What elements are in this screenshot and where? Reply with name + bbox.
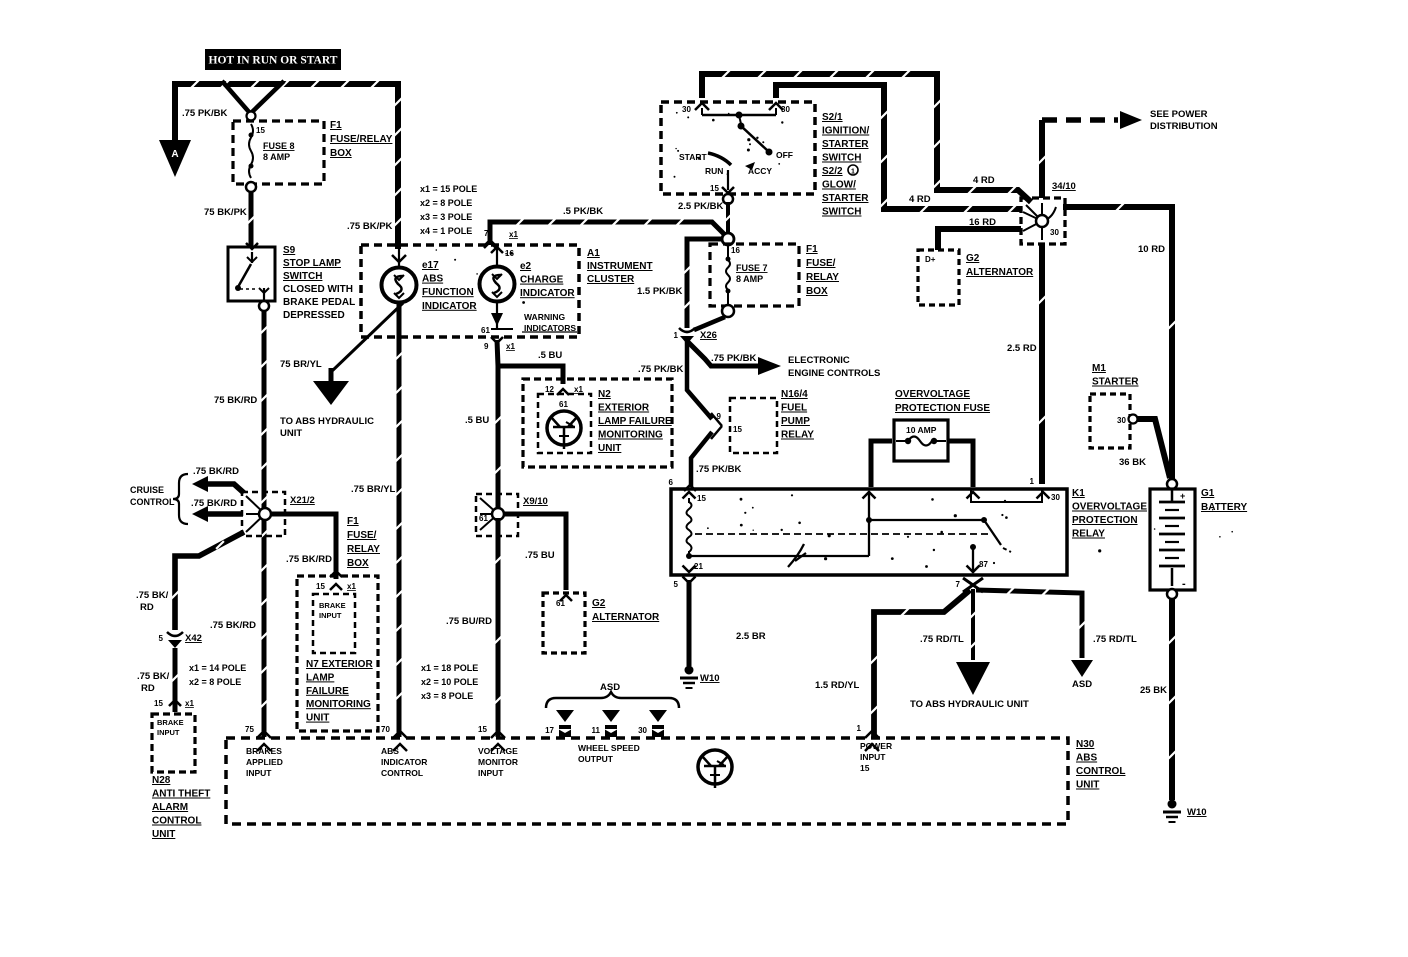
svg-text:UNIT: UNIT: [598, 443, 621, 454]
svg-text:STARTER: STARTER: [822, 193, 869, 204]
svg-text:RELAY: RELAY: [781, 430, 814, 441]
svg-text:e2: e2: [520, 261, 532, 272]
svg-text:CHARGE: CHARGE: [520, 275, 564, 286]
svg-text:N30: N30: [1076, 739, 1095, 750]
svg-text:1.5 PK/BK: 1.5 PK/BK: [637, 286, 683, 297]
svg-text:LAMP FAILURE: LAMP FAILURE: [598, 416, 672, 427]
svg-text:x1 = 18 POLE: x1 = 18 POLE: [421, 663, 478, 673]
svg-text:12: 12: [545, 385, 554, 394]
svg-text:VOLTAGE: VOLTAGE: [478, 746, 518, 756]
svg-text:15: 15: [154, 699, 163, 708]
svg-text:15: 15: [710, 184, 719, 193]
svg-text:APPLIED: APPLIED: [246, 757, 283, 767]
svg-text:8 AMP: 8 AMP: [736, 274, 763, 284]
svg-text:N16/4: N16/4: [781, 389, 808, 400]
svg-text:SEE POWER: SEE POWER: [1150, 109, 1208, 120]
svg-text:UNIT: UNIT: [280, 428, 302, 439]
svg-text:BRAKE: BRAKE: [319, 601, 346, 610]
svg-text:.5 BU: .5 BU: [538, 350, 562, 361]
svg-text:30: 30: [638, 726, 647, 735]
svg-text:.75 PK/BK: .75 PK/BK: [182, 108, 228, 119]
svg-text:87: 87: [979, 560, 988, 569]
svg-text:HOT IN RUN OR START: HOT IN RUN OR START: [209, 55, 338, 67]
svg-text:5: 5: [159, 634, 164, 643]
svg-text:.75 RD/TL: .75 RD/TL: [920, 634, 964, 645]
svg-text:2.5 BR: 2.5 BR: [736, 631, 766, 642]
svg-text:4 RD: 4 RD: [909, 194, 931, 205]
svg-text:15: 15: [697, 494, 706, 503]
svg-text:RELAY: RELAY: [806, 272, 839, 283]
svg-text:INPUT: INPUT: [157, 728, 180, 737]
svg-text:ABS: ABS: [1076, 753, 1097, 764]
svg-text:25 BK: 25 BK: [1140, 685, 1167, 696]
svg-text:W10: W10: [1187, 807, 1207, 818]
svg-text:10 AMP: 10 AMP: [906, 425, 937, 435]
svg-text:.75 BK/: .75 BK/: [137, 671, 170, 682]
svg-text:7: 7: [956, 580, 961, 589]
svg-text:K1: K1: [1072, 488, 1085, 499]
svg-text:CONTROL: CONTROL: [130, 497, 175, 507]
svg-text:BOX: BOX: [330, 148, 352, 159]
svg-text:9: 9: [484, 342, 489, 351]
svg-text:1: 1: [1030, 477, 1035, 486]
svg-text:75 BR/YL: 75 BR/YL: [280, 359, 322, 370]
svg-text:.75 BK/RD: .75 BK/RD: [286, 554, 332, 565]
svg-text:70: 70: [381, 725, 390, 734]
svg-text:15: 15: [733, 425, 742, 434]
svg-text:CONTROL: CONTROL: [152, 816, 201, 827]
svg-text:INPUT: INPUT: [860, 752, 886, 762]
svg-text:.75 BU/RD: .75 BU/RD: [446, 616, 492, 627]
svg-text:ELECTRONIC: ELECTRONIC: [788, 355, 850, 366]
svg-text:ENGINE CONTROLS: ENGINE CONTROLS: [788, 368, 880, 379]
svg-text:FUSE/: FUSE/: [806, 258, 836, 269]
svg-text:ALTERNATOR: ALTERNATOR: [966, 267, 1034, 278]
svg-text:ALARM: ALARM: [152, 802, 188, 813]
svg-text:M1: M1: [1092, 363, 1106, 374]
svg-text:X21/2: X21/2: [290, 495, 315, 506]
svg-text:ABS: ABS: [381, 746, 399, 756]
svg-text:G2: G2: [592, 598, 606, 609]
svg-text:x1 = 15 POLE: x1 = 15 POLE: [420, 184, 477, 194]
svg-text:CONTROL: CONTROL: [1076, 766, 1125, 777]
svg-text:BRAKE PEDAL: BRAKE PEDAL: [283, 297, 355, 308]
svg-text:D+: D+: [925, 255, 936, 264]
svg-text:EXTERIOR: EXTERIOR: [598, 403, 650, 414]
svg-text:ABS: ABS: [422, 274, 443, 285]
svg-text:30: 30: [1050, 228, 1059, 237]
svg-text:TO ABS HYDRAULIC: TO ABS HYDRAULIC: [280, 416, 374, 427]
svg-text:x1: x1: [185, 699, 194, 708]
svg-text:STARTER: STARTER: [1092, 377, 1139, 388]
svg-text:75 BK/PK: 75 BK/PK: [204, 207, 247, 218]
svg-text:.75 BK/: .75 BK/: [136, 590, 169, 601]
svg-text:UNIT: UNIT: [1076, 780, 1099, 791]
svg-text:GLOW/: GLOW/: [822, 180, 856, 191]
svg-text:OUTPUT: OUTPUT: [578, 754, 614, 764]
svg-text:16 RD: 16 RD: [969, 217, 996, 228]
svg-text:e17: e17: [422, 260, 439, 271]
svg-text:ALTERNATOR: ALTERNATOR: [592, 612, 660, 623]
svg-text:.5 PK/BK: .5 PK/BK: [563, 206, 603, 217]
svg-text:RD: RD: [141, 683, 155, 694]
svg-text:RUN: RUN: [705, 166, 723, 176]
svg-text:6: 6: [669, 478, 674, 487]
svg-text:4 RD: 4 RD: [973, 175, 995, 186]
svg-text:LAMP: LAMP: [306, 672, 335, 683]
svg-text:BRAKE: BRAKE: [157, 718, 184, 727]
svg-text:+: +: [1180, 491, 1185, 501]
svg-text:START: START: [679, 152, 708, 162]
svg-text:FUEL: FUEL: [781, 403, 807, 414]
svg-text:G1: G1: [1201, 488, 1215, 499]
svg-text:N2: N2: [598, 389, 611, 400]
svg-text:34/10: 34/10: [1052, 181, 1076, 192]
svg-text:N28: N28: [152, 775, 171, 786]
svg-text:30: 30: [781, 105, 790, 114]
svg-text:X26: X26: [700, 330, 717, 341]
svg-text:G2: G2: [966, 253, 980, 264]
svg-text:.75 PK/BK: .75 PK/BK: [711, 353, 757, 364]
svg-text:CRUISE: CRUISE: [130, 485, 164, 495]
svg-text:RELAY: RELAY: [1072, 529, 1105, 540]
svg-text:SWITCH: SWITCH: [822, 207, 861, 218]
svg-text:MONITORING: MONITORING: [306, 699, 371, 710]
svg-text:.75 RD/TL: .75 RD/TL: [1093, 634, 1137, 645]
svg-text:A1: A1: [587, 248, 600, 259]
svg-text:OVERVOLTAGE: OVERVOLTAGE: [895, 389, 970, 400]
svg-text:x2 = 8 POLE: x2 = 8 POLE: [189, 677, 241, 687]
svg-text:30: 30: [1117, 416, 1126, 425]
svg-text:X9/10: X9/10: [523, 496, 548, 507]
svg-text:PUMP: PUMP: [781, 416, 810, 427]
svg-text:X42: X42: [185, 633, 202, 644]
svg-text:F1: F1: [806, 244, 818, 255]
svg-text:TO ABS HYDRAULIC UNIT: TO ABS HYDRAULIC UNIT: [910, 699, 1029, 710]
svg-text:x1: x1: [509, 230, 518, 239]
svg-text:OVERVOLTAGE: OVERVOLTAGE: [1072, 502, 1147, 513]
svg-text:WARNING: WARNING: [524, 312, 565, 322]
svg-text:1.5 RD/YL: 1.5 RD/YL: [815, 680, 860, 691]
svg-text:FUSE/RELAY: FUSE/RELAY: [330, 134, 393, 145]
svg-text:S2/2: S2/2: [822, 166, 843, 177]
svg-text:FAILURE: FAILURE: [306, 686, 349, 697]
svg-text:16: 16: [731, 246, 740, 255]
svg-text:.75 BR/YL: .75 BR/YL: [351, 484, 396, 495]
svg-text:CLOSED WITH: CLOSED WITH: [283, 284, 353, 295]
svg-text:RELAY: RELAY: [347, 544, 380, 555]
svg-text:FUSE 7: FUSE 7: [736, 263, 768, 273]
svg-text:x2 = 8 POLE: x2 = 8 POLE: [420, 198, 472, 208]
svg-text:BOX: BOX: [347, 558, 369, 569]
svg-text:61: 61: [556, 599, 565, 608]
svg-text:15: 15: [860, 763, 870, 773]
svg-text:S2/1: S2/1: [822, 112, 843, 123]
svg-text:A: A: [171, 149, 178, 160]
svg-text:61: 61: [559, 400, 568, 409]
svg-text:30: 30: [1051, 493, 1060, 502]
svg-text:N7 EXTERIOR: N7 EXTERIOR: [306, 659, 373, 670]
svg-text:x2 = 10 POLE: x2 = 10 POLE: [421, 677, 478, 687]
svg-text:17: 17: [545, 726, 554, 735]
svg-text:36 BK: 36 BK: [1119, 457, 1146, 468]
svg-text:.75 PK/BK: .75 PK/BK: [696, 464, 742, 475]
svg-text:DEPRESSED: DEPRESSED: [283, 310, 345, 321]
svg-text:UNIT: UNIT: [152, 829, 175, 840]
svg-text:BOX: BOX: [806, 286, 828, 297]
svg-text:MONITOR: MONITOR: [478, 757, 518, 767]
svg-text:.5 BU: .5 BU: [465, 415, 489, 426]
svg-text:15: 15: [316, 582, 325, 591]
svg-text:IGNITION/: IGNITION/: [822, 126, 869, 137]
svg-text:CONTROL: CONTROL: [381, 768, 423, 778]
svg-text:SWITCH: SWITCH: [822, 153, 861, 164]
svg-text:BRAKES: BRAKES: [246, 746, 282, 756]
svg-text:8 AMP: 8 AMP: [263, 152, 290, 162]
svg-text:x1: x1: [574, 385, 583, 394]
svg-text:11: 11: [592, 726, 601, 735]
svg-text:.75 BK/PK: .75 BK/PK: [347, 221, 393, 232]
svg-text:ASD: ASD: [1072, 679, 1092, 690]
svg-text:WHEEL SPEED: WHEEL SPEED: [578, 743, 640, 753]
svg-text:F1: F1: [330, 120, 342, 131]
svg-text:.75 BK/RD: .75 BK/RD: [191, 498, 237, 509]
svg-text:MONITORING: MONITORING: [598, 430, 663, 441]
svg-text:STARTER: STARTER: [822, 139, 869, 150]
svg-text:5: 5: [674, 580, 679, 589]
svg-text:UNIT: UNIT: [306, 713, 329, 724]
svg-text:15: 15: [478, 725, 487, 734]
svg-text:.75 BU: .75 BU: [525, 550, 555, 561]
svg-text:10 RD: 10 RD: [1138, 244, 1165, 255]
svg-text:-: -: [1182, 578, 1186, 590]
svg-text:STOP LAMP: STOP LAMP: [283, 258, 341, 269]
svg-text:61: 61: [479, 514, 488, 523]
svg-text:INDICATOR: INDICATOR: [422, 301, 477, 312]
svg-text:x1: x1: [347, 582, 356, 591]
svg-text:1: 1: [851, 169, 855, 176]
svg-text:2.5 RD: 2.5 RD: [1007, 343, 1037, 354]
svg-text:.75 PK/BK: .75 PK/BK: [638, 364, 684, 375]
svg-text:W10: W10: [700, 673, 720, 684]
svg-text:75: 75: [245, 725, 254, 734]
svg-text:30: 30: [682, 105, 691, 114]
svg-text:F1: F1: [347, 516, 359, 527]
svg-text:61: 61: [481, 326, 490, 335]
svg-text:POWER: POWER: [860, 741, 892, 751]
svg-text:.75 BK/RD: .75 BK/RD: [210, 620, 256, 631]
svg-text:INPUT: INPUT: [319, 611, 342, 620]
svg-text:FUSE/: FUSE/: [347, 530, 377, 541]
svg-text:FUSE 8: FUSE 8: [263, 141, 295, 151]
svg-text:x1: x1: [506, 342, 515, 351]
svg-text:DISTRIBUTION: DISTRIBUTION: [1150, 121, 1218, 132]
svg-text:CLUSTER: CLUSTER: [587, 274, 635, 285]
svg-text:ANTI THEFT: ANTI THEFT: [152, 789, 210, 800]
svg-text:RD: RD: [140, 602, 154, 613]
svg-text:x3 = 3 POLE: x3 = 3 POLE: [420, 212, 472, 222]
svg-text:x1 = 14 POLE: x1 = 14 POLE: [189, 663, 246, 673]
svg-text:2.5 PK/BK: 2.5 PK/BK: [678, 201, 724, 212]
svg-text:INPUT: INPUT: [246, 768, 272, 778]
svg-text:INSTRUMENT: INSTRUMENT: [587, 261, 653, 272]
svg-text:S9: S9: [283, 245, 296, 256]
svg-text:.75 BK/RD: .75 BK/RD: [193, 466, 239, 477]
svg-text:x3 = 8 POLE: x3 = 8 POLE: [421, 691, 473, 701]
svg-text:75 BK/RD: 75 BK/RD: [214, 395, 257, 406]
svg-text:FUNCTION: FUNCTION: [422, 287, 474, 298]
svg-text:1: 1: [674, 331, 679, 340]
svg-text:PROTECTION FUSE: PROTECTION FUSE: [895, 403, 990, 414]
svg-text:BATTERY: BATTERY: [1201, 502, 1247, 513]
svg-text:INDICATOR: INDICATOR: [381, 757, 427, 767]
svg-text:15: 15: [256, 126, 265, 135]
svg-text:OFF: OFF: [776, 150, 793, 160]
svg-text:INPUT: INPUT: [478, 768, 504, 778]
svg-text:SWITCH: SWITCH: [283, 271, 322, 282]
svg-text:INDICATOR: INDICATOR: [520, 288, 575, 299]
svg-text:1: 1: [857, 724, 862, 733]
svg-text:x4 = 1 POLE: x4 = 1 POLE: [420, 226, 472, 236]
svg-text:PROTECTION: PROTECTION: [1072, 515, 1138, 526]
